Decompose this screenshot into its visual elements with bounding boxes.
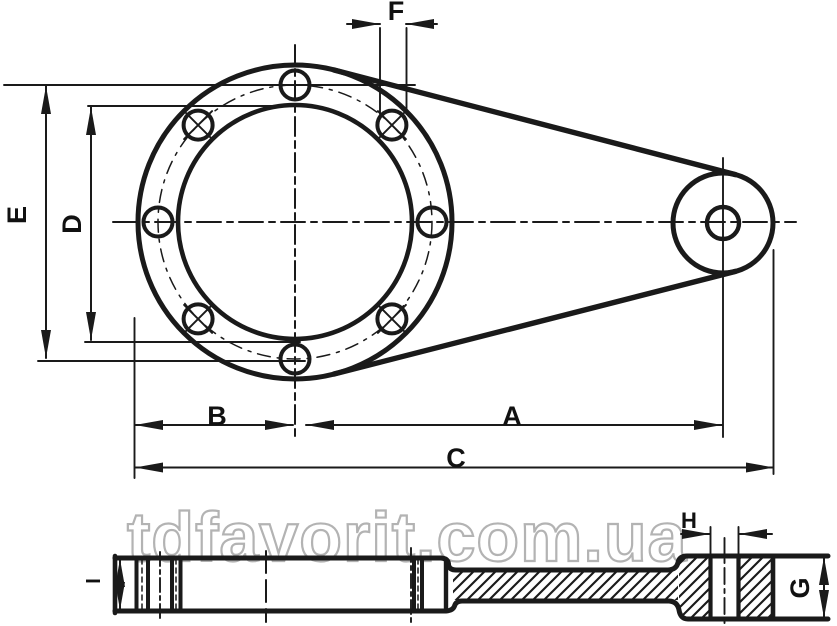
extension line D top xyxy=(88,105,281,107)
arrow I top xyxy=(115,559,125,587)
flange outer circle xyxy=(138,65,452,379)
dimension line D xyxy=(90,107,92,340)
arrow C right xyxy=(746,463,774,473)
disc right hole centerline xyxy=(410,548,412,623)
boss hole centerline xyxy=(724,538,726,625)
cross mark hole top-left xyxy=(184,111,212,139)
arrow I bottom xyxy=(115,582,125,610)
extension line E top xyxy=(4,84,415,86)
arrow B right xyxy=(265,420,293,430)
disc left hole centerline xyxy=(159,552,161,620)
arrow A left xyxy=(306,420,334,430)
cross mark hole top-right xyxy=(378,111,406,139)
svg-text:F: F xyxy=(388,0,405,26)
boss hole left edge xyxy=(708,556,712,619)
H extension lines xyxy=(710,527,712,556)
dimension line A xyxy=(306,424,722,426)
svg-text:G: G xyxy=(785,577,815,598)
disc left hole edge lines xyxy=(135,559,139,610)
cross mark hole bottom-left xyxy=(184,305,212,333)
arrow G bottom xyxy=(819,590,829,618)
bolt hole bottom-right xyxy=(377,304,406,333)
bolt hole top-left xyxy=(184,111,213,140)
disc left hole hidden lines xyxy=(141,559,143,610)
flange vertical centerline xyxy=(294,45,296,437)
flange bore circle xyxy=(178,105,412,339)
dimension line H xyxy=(681,533,710,535)
arrow F right xyxy=(406,19,434,29)
disc right hole hidden line xyxy=(417,559,419,610)
small end vertical centerline xyxy=(722,158,724,437)
extension line D bottom xyxy=(85,341,300,343)
boss hole right edge xyxy=(736,556,740,619)
bolt circle centerline xyxy=(158,85,432,359)
dimension line E xyxy=(45,86,47,358)
arrow C left xyxy=(135,463,163,473)
dimension line C xyxy=(135,467,773,469)
svg-text:H: H xyxy=(681,508,697,533)
svg-text:tdfavorit.com.ua: tdfavorit.com.ua xyxy=(127,498,688,576)
extension line left BC xyxy=(134,318,136,478)
section bottom edge xyxy=(115,601,828,619)
small end bore circle xyxy=(707,207,739,239)
svg-text:I: I xyxy=(83,578,105,584)
arrow A right xyxy=(694,420,722,430)
disc right hole edge lines xyxy=(412,559,416,610)
horizontal centerline xyxy=(113,221,796,223)
svg-text:A: A xyxy=(502,401,522,431)
extension line F right xyxy=(406,28,408,114)
disc centerline xyxy=(265,551,267,622)
hatch arm xyxy=(453,571,678,600)
extension line F left xyxy=(379,28,381,114)
dimension line I xyxy=(119,559,121,610)
extension line right C xyxy=(773,250,775,474)
boss right edge xyxy=(771,556,776,619)
arrow D top xyxy=(86,107,96,135)
section left edge xyxy=(113,556,118,613)
bolt hole bottom xyxy=(281,345,310,374)
arm bottom tangent line xyxy=(334,271,736,374)
svg-text:D: D xyxy=(57,214,87,234)
hatch boss right xyxy=(740,558,772,617)
svg-text:E: E xyxy=(2,206,32,224)
arrow G top xyxy=(819,557,829,585)
hatch boss left xyxy=(679,558,709,617)
dimension line F xyxy=(347,23,380,25)
arrow D bottom xyxy=(86,312,96,340)
small end outer circle xyxy=(673,173,773,273)
bolt hole bottom-left xyxy=(184,304,213,333)
arrow E bottom xyxy=(41,330,51,358)
extension line E bottom xyxy=(38,360,305,362)
arrow F left xyxy=(352,19,380,29)
bolt hole top-right xyxy=(377,111,406,140)
arrow H right xyxy=(739,529,767,539)
disc right face line xyxy=(444,559,448,610)
bolt hole right xyxy=(418,208,447,237)
section top edge xyxy=(115,556,828,570)
cross mark hole bottom-right xyxy=(378,305,406,333)
dimension line G xyxy=(823,557,825,618)
svg-text:B: B xyxy=(207,401,227,431)
arrow B left xyxy=(135,420,163,430)
dimension line B xyxy=(135,424,293,426)
svg-text:C: C xyxy=(446,443,466,473)
arm top tangent line xyxy=(334,70,736,175)
bolt hole top xyxy=(281,71,310,100)
arrow E top xyxy=(41,86,51,114)
arrow H left xyxy=(682,529,710,539)
bolt hole left xyxy=(144,208,173,237)
